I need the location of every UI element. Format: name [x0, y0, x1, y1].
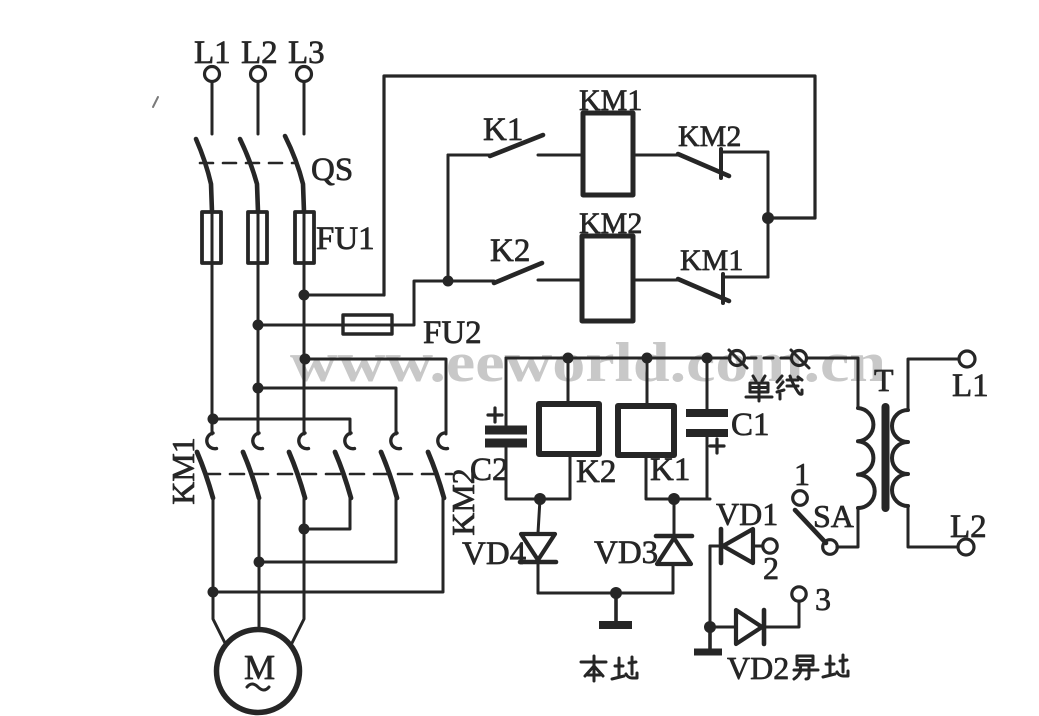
wire L1 feed to pole 4	[213, 419, 350, 434]
label 异地	[794, 655, 848, 679]
capacitor C2	[505, 358, 508, 426]
svg-text:VD4: VD4	[462, 536, 526, 572]
relay coil K2	[563, 353, 574, 364]
transformer core	[882, 407, 890, 508]
motor M	[217, 630, 300, 713]
node K branch junction	[443, 276, 454, 287]
wire K branch vertical	[447, 155, 450, 281]
contactor pole 2	[253, 433, 263, 449]
wire right riser	[767, 152, 770, 277]
contactor pole 1 (hook + blade)	[207, 433, 217, 449]
wire L2 drop	[257, 82, 260, 134]
svg-text:KM1: KM1	[579, 84, 642, 117]
diode VD2	[710, 626, 736, 629]
svg-text:C2: C2	[470, 452, 509, 488]
wire L2 column lower	[257, 388, 260, 434]
node K2-C2-VD4 junction	[534, 493, 546, 505]
svg-text:2: 2	[763, 550, 779, 586]
wire junction to frame	[768, 217, 815, 220]
switch QS pole 3 blade	[285, 136, 304, 212]
node L3-frame junction	[299, 290, 310, 301]
wire pole5 to pole2	[259, 498, 396, 562]
node ground junction	[610, 587, 622, 599]
wire pole1 output	[213, 498, 226, 645]
contactor pole 3	[299, 433, 309, 449]
transformer T secondary winding	[892, 410, 908, 506]
svg-text:K1: K1	[650, 452, 690, 488]
diode VD1	[710, 545, 719, 548]
scan speck	[153, 97, 158, 107]
svg-text:VD3: VD3	[594, 535, 658, 571]
svg-text:T: T	[874, 362, 894, 398]
svg-text:KM2: KM2	[678, 120, 741, 153]
fuse FU1 pole 2	[248, 212, 267, 263]
svg-text:C1: C1	[731, 407, 770, 443]
wire L1 drop	[211, 82, 214, 134]
contact K2	[448, 280, 494, 283]
wire L3 to control frame	[304, 294, 384, 297]
transformer T primary winding	[858, 408, 875, 508]
fuse FU1 pole 3	[295, 212, 314, 263]
wire FU2 to K branch	[392, 281, 448, 325]
wire L2 column through fuse	[257, 212, 260, 388]
contactor pole 6	[438, 433, 448, 449]
fuse FU2	[343, 324, 392, 327]
contact KM2 (NC)	[678, 154, 729, 176]
svg-text:VD2: VD2	[727, 650, 789, 686]
svg-text:K2: K2	[576, 454, 616, 490]
svg-text:FU1: FU1	[316, 221, 375, 257]
terminal single-wire A	[730, 351, 745, 366]
wire L3 drop	[303, 82, 306, 134]
wire L1 column through fuse	[211, 212, 214, 419]
node pole1-pole6 junction	[208, 587, 219, 598]
wire L3 column lower	[303, 359, 306, 434]
wire L2 to FU2	[258, 324, 343, 327]
terminal L3	[297, 67, 312, 82]
svg-text:3: 3	[815, 581, 831, 617]
control frame wire	[384, 76, 815, 295]
svg-text:L2: L2	[950, 509, 987, 545]
svg-text:K1: K1	[483, 112, 523, 148]
label 单线	[746, 376, 802, 401]
wire pole2 output	[258, 498, 261, 629]
node L2-pole5 junction	[253, 383, 264, 394]
wire pole6 to pole1	[213, 498, 443, 592]
node K1-C1-VD3 junction	[668, 493, 680, 505]
svg-text:QS: QS	[311, 152, 353, 188]
wire secondary bottom to L2	[908, 506, 958, 547]
wire L2 feed to pole 5	[258, 388, 396, 434]
wire L3 column through fuse	[303, 212, 306, 359]
svg-text:M: M	[244, 648, 275, 687]
QS linkage dashed	[200, 162, 296, 165]
terminal L2 (secondary)	[958, 539, 974, 555]
fuse FU1 pole 1	[202, 212, 221, 263]
node L3-bus junction	[300, 354, 311, 365]
relay bus wire	[506, 357, 730, 360]
wire KM1 to KM2 contact	[633, 154, 678, 157]
contact KM1 (NC)	[678, 279, 729, 301]
svg-text:K2: K2	[490, 233, 530, 269]
node pole3-pole4 junction	[299, 524, 310, 535]
switch QS pole 1 blade	[196, 139, 212, 212]
terminal L1	[205, 67, 220, 82]
coil KM2	[582, 236, 633, 321]
svg-text:KM1: KM1	[680, 244, 743, 277]
svg-text:SA: SA	[813, 498, 854, 534]
svg-text:L1: L1	[952, 368, 989, 404]
wire secondary top to L1	[908, 359, 959, 410]
svg-text:KM1: KM1	[165, 437, 201, 505]
capacitor C1	[702, 353, 713, 364]
wire pole3 output	[291, 498, 304, 645]
svg-text:VD1: VD1	[716, 496, 778, 532]
dashed single-wire link	[747, 357, 791, 360]
wire terminal B to transformer	[807, 358, 858, 408]
wire SA to transformer	[837, 508, 858, 547]
terminal L2	[251, 67, 266, 82]
wire L3 feed to pole 6	[305, 359, 446, 434]
svg-text:KM2: KM2	[579, 207, 642, 240]
wire pole4 to pole3	[304, 498, 350, 529]
node right riser junction	[762, 212, 774, 224]
ground (local)	[614, 593, 618, 622]
wire VD4-VD3 bottom	[538, 592, 673, 595]
diode VD4	[538, 499, 540, 533]
svg-text:1: 1	[794, 456, 810, 492]
terminal single-wire B	[792, 351, 807, 366]
label 本地	[581, 656, 637, 681]
ground (remote side)	[708, 627, 712, 650]
contactor pole 4	[345, 433, 355, 449]
wire VD1 riser	[709, 546, 712, 627]
contactor linkage dashed	[206, 473, 452, 476]
node pole2-pole5 junction	[254, 557, 265, 568]
node L1-pole4 junction	[208, 414, 219, 425]
terminal L1 (secondary)	[959, 351, 975, 367]
wire L1 column lower	[211, 419, 214, 434]
node VD1-VD2 junction	[704, 621, 716, 633]
switch QS pole 2 blade	[240, 139, 258, 212]
contact K1	[448, 154, 490, 157]
relay coil K1	[642, 353, 653, 364]
coil KM1	[583, 113, 633, 195]
diode VD3	[673, 499, 676, 535]
node L2-FU2 junction	[253, 320, 264, 331]
wire KM2 to KM1 contact	[633, 279, 678, 282]
contactor pole 5	[391, 433, 401, 449]
svg-text:FU2: FU2	[423, 315, 482, 351]
